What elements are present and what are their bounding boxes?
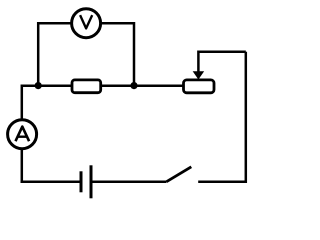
battery cell: short (negative) plate bbox=[80, 171, 83, 192]
node junction left bbox=[35, 82, 42, 89]
rheostat (variable resistor) body bbox=[184, 80, 215, 93]
wire bottom left to battery bbox=[21, 180, 82, 183]
battery cell: long (positive) plate bbox=[90, 165, 93, 198]
wire battery to switch bbox=[91, 180, 167, 183]
resistor R (parallel with voltmeter) bbox=[72, 80, 101, 93]
wire switch right contact to bottom-right corner bbox=[198, 180, 246, 183]
switch open blade bbox=[167, 167, 192, 182]
wire top branch (voltmeter loop top) bbox=[38, 22, 134, 25]
rheostat wiper arrowhead bbox=[194, 72, 204, 79]
node junction right bbox=[130, 82, 137, 89]
wire right vertical (return to rheostat wiper) bbox=[245, 52, 248, 183]
wire wiper vertical shaft bbox=[197, 51, 200, 77]
wire left drop from node to ammeter bbox=[21, 85, 24, 122]
wire ammeter to bottom-left corner bbox=[21, 148, 24, 182]
voltmeter V bbox=[72, 9, 101, 38]
wire node row to rheostat bbox=[134, 85, 183, 88]
wire left vertical of voltmeter loop bbox=[37, 22, 40, 86]
wire right vertical of voltmeter loop bbox=[133, 22, 136, 86]
wire middle horizontal (node row through resistor) bbox=[22, 85, 135, 88]
ammeter A bbox=[8, 120, 37, 149]
wire top of wiper feed bbox=[198, 50, 245, 53]
